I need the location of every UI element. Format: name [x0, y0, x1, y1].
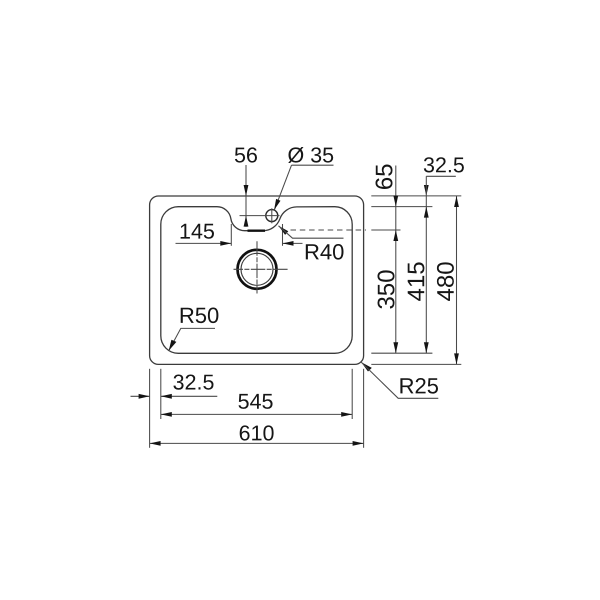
drain centerline horizontal [234, 268, 290, 270]
dim 65/350 shared line [395, 166, 397, 354]
dim 32.5 top label [424, 157, 464, 172]
dim 545 arrow right [341, 412, 352, 417]
outer-top extension line [371, 195, 461, 197]
R25 leader line [361, 362, 438, 398]
dim 32.5 bottom line right tail [161, 395, 218, 397]
tap hole centerline horizontal [240, 215, 280, 217]
dim 480 arrow up at outer top [454, 196, 459, 207]
R40 leader line [279, 226, 344, 238]
dia 35 leader line [274, 165, 291, 210]
dim 32.5 bottom line left tail [131, 395, 150, 397]
dim 145 extension right [282, 224, 284, 246]
dim 32.5 bottom arrow right-pointing [139, 394, 150, 399]
dim 145 line right [283, 242, 303, 244]
dim 480 arrow down at outer bottom [454, 353, 459, 364]
dim 415 arrow up at inner top [424, 207, 429, 218]
dia 35 leader shelf [292, 164, 334, 166]
dim 145 line left [176, 242, 232, 244]
sink outer outline (610 x 480, R25) [150, 196, 364, 364]
bottom extension line outer-left [149, 369, 151, 448]
dim 415 line (with 32.5 upper seg) [425, 176, 427, 353]
dim 32.5 bottom label [173, 375, 213, 390]
dim 610 label [240, 425, 274, 440]
sink bowl inner outline (545 x 415, R50) with tap-ledge dip [161, 207, 352, 354]
drain inner circle [241, 253, 273, 285]
inner-top extension line [371, 206, 432, 208]
dim 32.5 top shelf line [426, 175, 456, 177]
dim 415 arrow down at inner bottom [424, 342, 429, 353]
R50 leader line [169, 328, 215, 350]
dim 545 line [161, 413, 352, 415]
dim 415 label (rotated) [408, 262, 425, 300]
dim 56 line [245, 165, 247, 227]
dim 610 arrow left [150, 441, 161, 446]
dim 350 label (rotated) [378, 270, 395, 308]
R50 label [181, 308, 219, 324]
drain outer circle [238, 250, 277, 289]
R50 leader arrow [169, 340, 177, 351]
dim 56 arrow up at hole centerline [244, 216, 249, 227]
bottom extension line inner-left [160, 369, 162, 419]
dim 145 arrow left-pointing [283, 241, 294, 246]
dim 65 label (rotated) [376, 164, 393, 189]
dashed ledge level line [291, 229, 367, 231]
dia 35 leader arrow [274, 199, 280, 210]
dim 350 arrow down at inner bottom [393, 342, 398, 353]
dim 610 line [150, 442, 364, 444]
dim 480 label (rotated) [437, 262, 454, 301]
dia 35 label [288, 147, 333, 163]
tap hole centerline vertical [271, 208, 273, 223]
bottom extension line outer-right [363, 369, 365, 448]
dim 56 label [235, 147, 257, 162]
tap ledge front edge (thick segment) [248, 230, 266, 232]
R40 leader arrow [279, 226, 289, 235]
dim 350 arrow up at ledge line [393, 230, 398, 241]
drain centerline vertical [256, 241, 258, 293]
inner-bottom extension line [371, 352, 432, 354]
dim 32.5 top arrow down at outer top [424, 185, 429, 196]
dim 145 extension left [230, 224, 232, 246]
R25 leader arrow [361, 362, 372, 371]
dim 65 arrow down at inner top [393, 196, 398, 207]
dim 56 arrow down at outer top [244, 185, 249, 196]
ledge level extension line (solid) [371, 229, 400, 231]
tap hole (dia 35) [266, 210, 278, 222]
dim 610 arrow right [353, 441, 364, 446]
dim 545 label [239, 394, 273, 409]
R40 label [306, 244, 344, 260]
dim 145 label [181, 224, 214, 239]
dim 32.5 bottom arrow left-pointing [161, 394, 172, 399]
outer-bottom extension line [371, 363, 461, 365]
dim 145 arrow right-pointing [220, 241, 231, 246]
R25 label [400, 378, 438, 394]
dim 480 line [456, 196, 458, 364]
dim 545 arrow left [161, 412, 172, 417]
bottom extension line inner-right [351, 369, 353, 419]
